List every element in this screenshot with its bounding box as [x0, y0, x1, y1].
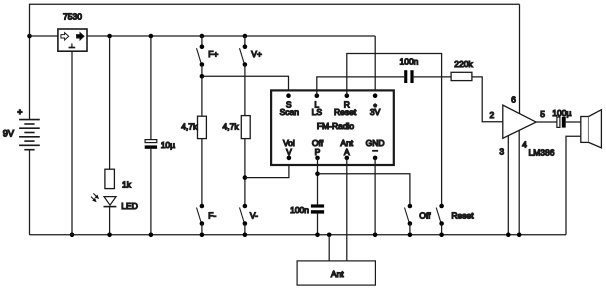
- node scan junction: [200, 74, 205, 79]
- svg-text:Reset: Reset: [451, 210, 474, 220]
- switch V-: [240, 204, 259, 226]
- wire ground to antenna box: [328, 235, 330, 261]
- wire 100n to ground: [317, 214, 319, 235]
- wire resistor to V- switch: [244, 139, 246, 206]
- node F+ rail junction: [200, 34, 205, 39]
- svg-text:+: +: [17, 107, 22, 117]
- capacitor C4 100µ electrolytic: [552, 108, 571, 128]
- capacitor C3 100n: [290, 204, 324, 215]
- node 10µ ground junction: [149, 233, 154, 238]
- svg-text:4,7k: 4,7k: [223, 122, 240, 132]
- node 100n ground junction: [315, 233, 320, 238]
- wire P pin down: [317, 158, 319, 205]
- wire R pin to reset switch: [347, 54, 442, 207]
- svg-text:220k: 220k: [454, 59, 473, 69]
- battery B1 9V: [3, 107, 40, 150]
- node antenna ground junction: [327, 233, 332, 238]
- svg-text:100n: 100n: [400, 57, 419, 67]
- svg-text:1k: 1k: [122, 179, 132, 189]
- wire off junction to Off switch: [318, 174, 410, 206]
- wire 9V top supply rail: [30, 4, 520, 36]
- svg-text:P: P: [315, 147, 321, 157]
- wire LM386 output pin 5: [536, 121, 557, 123]
- svg-text:10µ: 10µ: [161, 140, 175, 150]
- svg-text:3: 3: [499, 147, 504, 157]
- op-amp U3 LM386: [499, 95, 554, 158]
- wire ground bottom rail: [30, 234, 567, 236]
- wire F- to ground: [201, 224, 203, 235]
- wire V+ switch to resistor: [244, 65, 246, 116]
- svg-text:V+: V+: [251, 49, 262, 59]
- speaker LS1: [581, 110, 602, 148]
- wire battery negative: [29, 150, 31, 235]
- wire rail to F+ switch: [201, 36, 203, 47]
- node Off ground junction: [408, 233, 413, 238]
- voltage regulator U2 7530: [58, 12, 87, 52]
- IC U1 FM-Radio: [271, 90, 394, 165]
- wire LS pin to coupling cap: [317, 77, 404, 96]
- wire 3V rail: [87, 35, 375, 37]
- wire GND pin to ground: [374, 158, 376, 235]
- svg-text:A: A: [344, 147, 350, 157]
- antenna terminal Ant: [297, 261, 375, 285]
- svg-text:7530: 7530: [63, 12, 82, 22]
- wire 10µ branch from 3V rail: [150, 36, 152, 140]
- wire LM386 pin 3 to ground: [507, 136, 509, 235]
- wire scan junction to S pin: [202, 76, 289, 96]
- wire cap to 220k: [414, 76, 452, 78]
- svg-text:LS: LS: [312, 107, 323, 117]
- svg-text:4: 4: [522, 139, 527, 149]
- wire LM386 pin 6 supply: [519, 4, 521, 113]
- wire LED branch from 3V rail: [109, 36, 111, 169]
- svg-text:3V: 3V: [370, 107, 381, 117]
- wire regulator ground: [71, 51, 73, 235]
- wire LED to ground: [109, 207, 111, 235]
- resistor R1 220k: [451, 59, 473, 81]
- resistor R2 1k: [105, 169, 132, 189]
- svg-text:Ant: Ant: [331, 269, 344, 279]
- svg-text:Scan: Scan: [280, 107, 300, 117]
- LED D1: [91, 193, 138, 210]
- wire Vol pin to volume junction: [245, 158, 289, 178]
- node F- ground junction: [200, 233, 205, 238]
- svg-text:100n: 100n: [290, 205, 309, 215]
- node V+ rail junction: [243, 34, 248, 39]
- node Reset ground junction: [439, 233, 444, 238]
- wire 220k to LM386 input pin 2: [472, 77, 503, 122]
- switch V+: [240, 44, 262, 66]
- node 10µ top junction: [149, 34, 154, 39]
- node pin 3 ground junction: [506, 233, 511, 238]
- svg-text:LM386: LM386: [529, 148, 555, 158]
- switch Off: [405, 204, 432, 226]
- svg-text:2: 2: [490, 110, 495, 120]
- switch F+: [197, 44, 219, 66]
- node V- ground junction: [243, 233, 248, 238]
- node LED branch top junction: [107, 34, 112, 39]
- wire LM386 pin 4 to ground: [518, 130, 520, 235]
- svg-text:100µ: 100µ: [552, 108, 571, 118]
- wire A pin to antenna: [346, 158, 348, 261]
- wire rail to V+ switch: [244, 36, 246, 47]
- node off junction: [315, 172, 320, 177]
- switch Reset: [436, 204, 474, 226]
- svg-text:LED: LED: [121, 201, 138, 211]
- svg-text:V-: V-: [250, 210, 258, 220]
- wire 3V pin drop: [374, 36, 376, 96]
- wire 10µ to ground: [150, 149, 152, 235]
- svg-text:Off: Off: [419, 210, 431, 220]
- wire V- to ground: [244, 224, 246, 235]
- switch F-: [197, 204, 217, 226]
- node LED ground junction: [107, 233, 112, 238]
- wire F+ switch to resistor: [201, 65, 203, 117]
- wire cap to speaker: [566, 121, 581, 123]
- node GND pin ground junction: [373, 233, 378, 238]
- resistor R3 4.7k: [181, 116, 206, 138]
- node battery plus junction: [27, 34, 32, 39]
- svg-text:V: V: [286, 147, 292, 157]
- capacitor C1 10µ electrolytic: [145, 140, 175, 151]
- wire Off to ground: [409, 224, 411, 235]
- node pin 4 ground junction: [517, 233, 522, 238]
- wire speaker return to ground: [566, 136, 581, 235]
- wire battery positive to junction: [29, 36, 31, 120]
- svg-text:–: –: [373, 145, 378, 155]
- svg-text:Reset: Reset: [334, 107, 357, 117]
- node regulator ground junction: [70, 233, 75, 238]
- svg-text:FM-Radio: FM-Radio: [317, 121, 355, 131]
- svg-text:F-: F-: [208, 210, 216, 220]
- svg-text:F+: F+: [208, 49, 218, 59]
- wire regulator input: [30, 35, 58, 37]
- wire Reset to ground: [441, 224, 443, 235]
- capacitor C2 100n: [400, 57, 419, 84]
- svg-text:9V: 9V: [3, 129, 15, 139]
- node volume junction: [243, 175, 248, 180]
- wire resistor to F- switch: [201, 139, 203, 206]
- resistor R4 4.7k: [223, 116, 251, 139]
- svg-text:5: 5: [540, 109, 545, 119]
- svg-text:4,7k: 4,7k: [181, 122, 198, 132]
- svg-text:6: 6: [511, 95, 516, 105]
